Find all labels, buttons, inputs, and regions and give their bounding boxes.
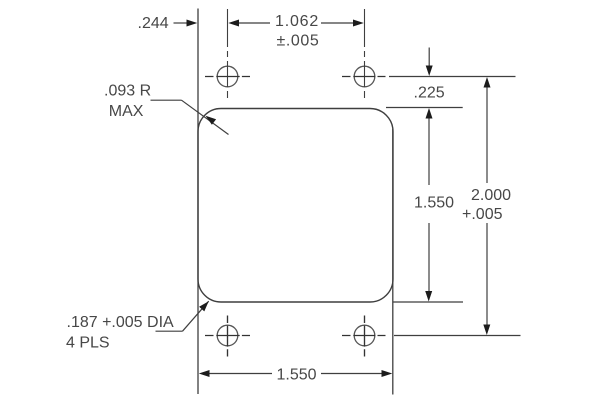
hole H4 vertical centerline xyxy=(364,316,366,357)
corner radius leader diagonal segment xyxy=(182,100,229,134)
svg-text:.093 R: .093 R xyxy=(104,82,151,99)
svg-text:1.550: 1.550 xyxy=(414,195,454,212)
dimension .244 leader line xyxy=(174,22,189,24)
hole H3 horizontal centerline xyxy=(205,335,250,337)
hole diameter leader arrowhead xyxy=(199,301,209,311)
dimension 1.062 right arrowhead xyxy=(353,20,364,27)
left edge extension line xyxy=(197,9,199,395)
corner radius leader horizontal segment xyxy=(151,99,182,101)
svg-text:4 PLS: 4 PLS xyxy=(66,335,110,352)
hole H2 vertical centerline xyxy=(364,9,366,99)
dimension 1.550 bottom line right segment xyxy=(321,373,383,375)
svg-text:2.000: 2.000 xyxy=(471,187,511,204)
dimension 2.000 vertical line upper segment xyxy=(486,87,488,183)
dimension 1.062 left arrowhead xyxy=(228,20,239,27)
dimension .225 arrow line xyxy=(428,48,430,68)
dimension 1.062 line right segment xyxy=(321,22,355,24)
svg-text:±.005: ±.005 xyxy=(277,32,320,49)
dimension 1.062 line left segment xyxy=(238,22,270,24)
hole H4 bottom-right circle xyxy=(354,325,375,346)
hole H2 horizontal centerline xyxy=(342,76,386,78)
dimension 1.550 bottom left arrowhead xyxy=(199,370,210,377)
hole H2 top-right circle xyxy=(354,66,375,87)
svg-text:1.062: 1.062 xyxy=(275,13,319,30)
dimension 2.000 down arrowhead xyxy=(483,325,490,336)
hole H1 vertical centerline xyxy=(227,9,229,99)
dimension 1.550 bottom right arrowhead xyxy=(382,370,393,377)
svg-text:1.550: 1.550 xyxy=(277,367,317,384)
extension line at top edge level (right) xyxy=(386,107,463,109)
hole H3 bottom-left circle xyxy=(217,325,238,346)
svg-text:.225: .225 xyxy=(414,85,445,102)
dimension 1.550 vertical down arrowhead xyxy=(425,291,432,302)
dimension 1.550 bottom line left segment xyxy=(208,373,272,375)
dimension 2.000 vertical line lower segment xyxy=(486,223,488,326)
dimension 1.550 vertical up arrowhead xyxy=(426,108,433,119)
right edge extension line xyxy=(392,129,394,395)
hole diameter leader horizontal segment xyxy=(156,330,183,332)
hole diameter leader diagonal segment xyxy=(183,301,209,331)
svg-text:.244: .244 xyxy=(138,15,169,32)
hole H3 vertical centerline xyxy=(227,316,229,357)
panel cutout outline (rounded square) xyxy=(198,109,393,303)
hole H1 top-left circle xyxy=(217,66,238,87)
extension line at bottom hole centre level (right) xyxy=(394,335,521,337)
dimension 2.000 up arrowhead xyxy=(484,77,491,88)
dimension .244 arrowhead xyxy=(187,20,198,27)
extension line at bottom edge level (right) xyxy=(393,301,463,303)
svg-text:.187 +.005 DIA: .187 +.005 DIA xyxy=(67,314,175,331)
hole H4 horizontal centerline xyxy=(342,335,386,337)
corner radius leader arrowhead xyxy=(206,116,217,125)
dimension 1.550 vertical line upper segment xyxy=(428,118,430,186)
hole H1 horizontal centerline xyxy=(205,76,250,78)
extension line at top hole centre level (right) xyxy=(389,76,516,78)
dimension 1.550 vertical line lower segment xyxy=(428,223,430,292)
dimension .225 down arrowhead xyxy=(426,66,433,77)
svg-text:+.005: +.005 xyxy=(462,206,503,223)
svg-text:MAX: MAX xyxy=(109,103,144,120)
